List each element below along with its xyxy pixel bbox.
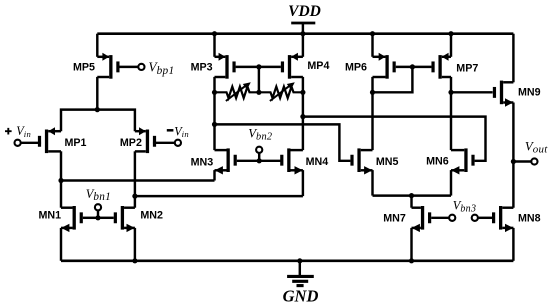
wire MP1 drain down: [60, 151, 62, 180]
terminal Vbn2: [256, 147, 262, 153]
transistor MP5: [97, 53, 119, 79]
svg-text:MN7: MN7: [383, 212, 406, 224]
wire MN2 drain up: [134, 196, 136, 208]
node first-stage out-: [132, 194, 137, 199]
svg-text:Vbn2: Vbn2: [248, 127, 272, 143]
wire MN5 source to MN6 source: [373, 194, 452, 196]
wire MP6 drain to MN5 drain: [371, 92, 373, 150]
svg-text:MN2: MN2: [140, 209, 163, 221]
node MN7 drain junction: [409, 193, 414, 198]
svg-text:MP7: MP7: [456, 63, 478, 75]
node MN2-GND junction: [132, 258, 137, 263]
wire VDD to MN9 drain: [512, 34, 514, 83]
node rail-MP3 junction: [212, 31, 217, 36]
svg-text:MN8: MN8: [518, 212, 541, 224]
node MP6-MP7 gate junction: [410, 64, 415, 69]
wire MP6 drain down: [371, 77, 373, 92]
ground: [287, 261, 314, 286]
wire Vbn1 stem: [97, 210, 99, 218]
wire node to MN3 source: [61, 179, 215, 181]
wire Vbn3 to MN8 gate: [478, 217, 492, 219]
wire out+ to MN6 gate: [303, 117, 486, 161]
transistor MN9: [493, 81, 514, 107]
node MN7-GND junction: [409, 258, 414, 263]
wire MN8 source to GND: [512, 228, 514, 261]
VDD rail: [97, 32, 513, 35]
wire MN1 source to GND: [60, 228, 62, 261]
terminal Vbn3 right: [472, 215, 478, 221]
wire Vbn2 stem: [258, 153, 260, 161]
wire MP2 gate to -Vin: [153, 142, 175, 144]
wire MN1 drain up: [60, 181, 62, 208]
node tail junction: [95, 107, 100, 112]
svg-text:Vbp1: Vbp1: [148, 60, 174, 77]
svg-text:MN9: MN9: [518, 87, 541, 99]
wire MN3 source leg: [213, 170, 215, 180]
wire VDD to MP3 source: [213, 34, 215, 57]
svg-text:MN5: MN5: [376, 156, 399, 168]
terminal Vbp1: [138, 64, 144, 70]
transistor MN7: [412, 206, 432, 232]
resistor R2 (right tunable): [259, 82, 303, 101]
node second-stage out-: [212, 122, 217, 127]
wire MN6 source down: [450, 170, 452, 196]
node resistor centre: [256, 90, 261, 95]
svg-text:Vin: Vin: [174, 124, 189, 139]
terminal -Vin: [175, 140, 181, 146]
transistor MN8: [492, 206, 513, 232]
transistor MP4: [281, 53, 303, 79]
node rail-VDD junction: [300, 31, 305, 36]
wire MP6 gate to MP7 gate: [396, 66, 432, 68]
wire to Vout terminal: [513, 160, 531, 162]
wire MP5 gate: [120, 66, 139, 68]
wire out- to MN5 gate: [215, 124, 351, 160]
node resistor right: [300, 90, 305, 95]
node rail-MP6 junction: [370, 31, 375, 36]
node Vbn1 junction: [95, 215, 100, 220]
node MP3-MP4 gate junction: [256, 64, 261, 69]
wire gate node down to resistor node: [258, 67, 260, 92]
svg-text:Vbn3: Vbn3: [453, 199, 476, 215]
node MP7 drain junction: [448, 90, 453, 95]
svg-text:MN6: MN6: [426, 156, 449, 168]
node Vout junction: [511, 159, 516, 164]
node first-stage out+: [58, 178, 63, 183]
wire resistor-left node to MN3 drain: [213, 92, 215, 150]
label +Vin: [5, 128, 12, 135]
wire MP3 gate to MP4 gate: [236, 66, 281, 68]
wire VDD to MP7 source: [450, 34, 452, 57]
svg-text:GND: GND: [283, 287, 319, 306]
wire MP6 diode connection: [373, 67, 413, 92]
transistor MP3: [215, 53, 236, 79]
svg-text:MN1: MN1: [39, 209, 62, 221]
wire MN9 source to MN8 drain: [512, 103, 514, 208]
svg-text:MP5: MP5: [73, 61, 95, 73]
svg-text:MP3: MP3: [191, 62, 213, 74]
wire MP2 drain down: [134, 151, 136, 196]
terminal +Vin: [15, 140, 21, 146]
node MP6 drain junction: [370, 90, 375, 95]
transistor MN5: [350, 148, 372, 174]
transistor MN2: [114, 206, 135, 232]
transistor MN6: [451, 148, 475, 174]
wire MP7 drain to MN6 drain: [450, 92, 452, 150]
svg-text:MP1: MP1: [65, 137, 87, 149]
svg-text:VDD: VDD: [288, 3, 321, 20]
wire MN3 gate to MN4 gate: [237, 160, 281, 162]
wire MN7 source to GND: [410, 228, 412, 261]
transistor MP1: [38, 127, 61, 153]
transistor MP6: [373, 53, 396, 79]
transistor MN4: [280, 148, 303, 174]
wire MN1 gate to Vbn1: [83, 217, 98, 219]
wire resistor-right node to MN4 drain: [302, 92, 304, 150]
svg-text:Vout: Vout: [525, 139, 548, 155]
svg-text:MP2: MP2: [120, 137, 142, 149]
wire VDD to MP6 source: [371, 34, 373, 57]
terminal Vbn3 left: [449, 215, 455, 221]
wire tail node to MP1/MP2 sources: [61, 110, 135, 132]
wire MN2 source to GND: [134, 228, 136, 261]
svg-text:MN4: MN4: [306, 156, 329, 168]
terminal Vout: [531, 158, 537, 164]
svg-text:MP6: MP6: [345, 61, 367, 73]
wire MN7 gate to Vbn3: [431, 217, 449, 219]
terminal Vbn1: [95, 204, 101, 210]
transistor MP2: [135, 127, 156, 153]
wire node to MN7 drain: [410, 196, 412, 208]
wire VDD to MP4 source: [302, 34, 304, 57]
node rail-MP7 junction: [448, 31, 453, 36]
node resistor left: [212, 90, 217, 95]
wire MP7 drain to MN9 gate: [451, 91, 493, 93]
node Vbn2 junction: [257, 158, 262, 163]
wire MP5 drain to tail node: [96, 77, 98, 110]
svg-text:MN3: MN3: [191, 156, 214, 168]
transistor MN3: [215, 148, 237, 174]
transistor MN1: [61, 206, 83, 232]
node GND junction: [297, 258, 302, 263]
node second-stage out+: [300, 114, 305, 119]
wire node to MN4 source: [135, 195, 303, 197]
GND rail: [61, 259, 513, 262]
wire MP4 drain down: [302, 77, 304, 92]
label -Vin: [167, 129, 174, 132]
wire Vbn1 to MN2 gate: [98, 217, 114, 219]
wire MN4 source leg: [302, 170, 304, 196]
resistor R1 (left tunable): [215, 82, 259, 101]
svg-text:Vin: Vin: [16, 124, 31, 139]
wire +Vin to MP1 gate: [21, 142, 41, 144]
wire VDD to MP5 source: [96, 34, 98, 57]
wire MN5 source down: [371, 170, 373, 196]
svg-text:MP4: MP4: [307, 60, 329, 72]
wire MP3 drain down: [213, 77, 215, 92]
transistor MP7: [431, 53, 451, 79]
VDD symbol: [291, 23, 315, 34]
wire MP7 drain down: [450, 77, 452, 92]
svg-text:Vbn1: Vbn1: [86, 187, 111, 203]
